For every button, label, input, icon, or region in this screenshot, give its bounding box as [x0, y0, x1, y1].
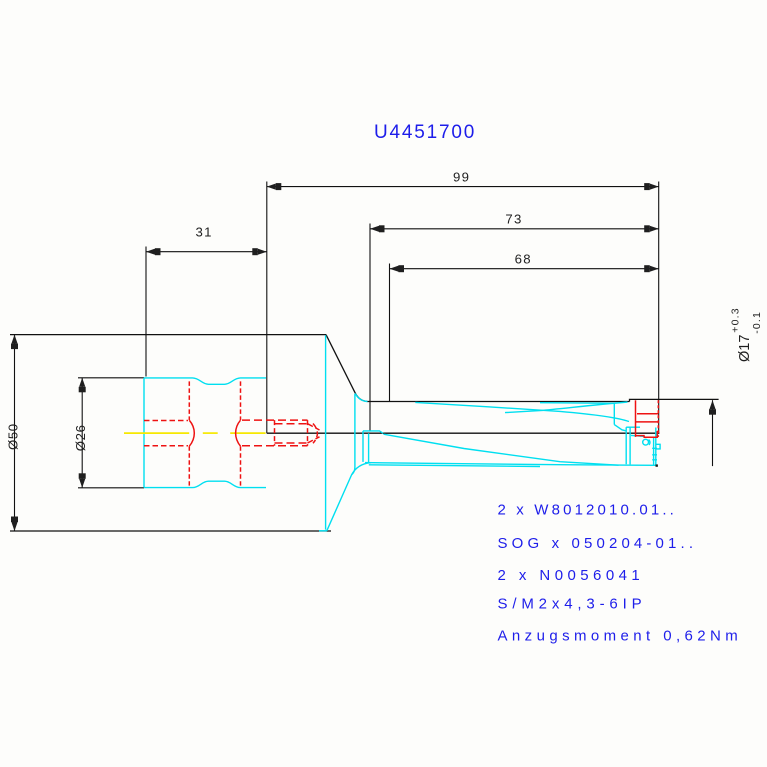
neck groove top ledge	[363, 431, 383, 433]
dim line 68	[390, 268, 659, 270]
body chamfer to drill	[326, 335, 368, 402]
D17 arrow (up)	[709, 400, 715, 409]
dimension texts	[5, 169, 531, 451]
arrowheads	[11, 183, 716, 531]
ext line x658.7	[658, 182, 660, 434]
ext line x370	[369, 224, 371, 432]
drill top edge	[368, 401, 630, 403]
ext line x267	[266, 182, 268, 434]
D50 arrows	[11, 335, 17, 344]
dim line D26	[81, 378, 83, 488]
screw inner top	[275, 423, 308, 425]
svg-text:U4451700: U4451700	[374, 122, 476, 143]
screw inner bottom	[275, 442, 308, 444]
axis line right part	[267, 432, 660, 434]
left bore bottom	[144, 445, 188, 447]
screw section vertical	[274, 420, 276, 446]
insert left edge	[635, 400, 637, 437]
red hidden details	[144, 381, 320, 485]
screw thread top	[242, 419, 308, 421]
tip side tab	[657, 444, 661, 449]
yellow centerline	[124, 432, 266, 434]
flute end vertical	[613, 403, 615, 424]
dimension graphics (black)	[15, 182, 713, 532]
screw tip vertical	[307, 420, 309, 446]
svg-text:2 x W8012010.01..: 2 x W8012010.01..	[498, 502, 677, 519]
svg-text:Ø50: Ø50	[5, 423, 20, 450]
insert top edge / dim17 extension	[630, 399, 719, 401]
body right face	[325, 335, 327, 529]
cross hole left arc	[189, 420, 194, 446]
ext line x146	[145, 247, 147, 377]
cross hole right arc	[236, 420, 241, 446]
lower flute diagonal	[384, 434, 619, 465]
cross hole left lower	[188, 446, 190, 485]
cross hole right upper	[240, 381, 242, 420]
insert bottom	[636, 431, 658, 437]
screw thread bottom	[242, 445, 308, 447]
D26 arrows	[79, 378, 85, 387]
tip end dot	[656, 464, 658, 466]
text D17 +0.3 -0.1 rotated	[730, 307, 763, 362]
flange top edge with groove dip	[144, 378, 266, 384]
dim line 73	[370, 228, 659, 230]
svg-text:+0.3: +0.3	[730, 307, 742, 333]
flange bottom edge with bump	[144, 481, 266, 487]
insert mid line 1	[637, 413, 658, 415]
upper flute line A	[415, 402, 629, 421]
tip right verticals	[653, 437, 655, 466]
body bottom corner	[319, 530, 327, 532]
dim line D17	[712, 400, 714, 466]
99 arrows	[267, 184, 276, 190]
insert mid line 2	[636, 421, 659, 423]
svg-text:31: 31	[196, 225, 213, 240]
dim line 31	[146, 251, 267, 253]
upper flute line B	[505, 402, 628, 413]
svg-text:-0.1: -0.1	[751, 311, 763, 334]
red insert at drill point	[636, 400, 659, 437]
svg-text:73: 73	[505, 211, 522, 226]
tip screw squiggle	[643, 439, 649, 445]
body bottom edge	[10, 530, 331, 532]
tip pocket ledge	[626, 426, 640, 428]
holder body outline (black)	[10, 335, 719, 531]
blue note texts	[498, 502, 743, 645]
tip ruler ticks	[652, 448, 657, 460]
svg-text:Ø17: Ø17	[737, 335, 753, 362]
31 arrows	[146, 249, 155, 255]
body top edge	[10, 334, 326, 336]
screw tip cone upper	[308, 424, 320, 430]
dim line 99	[267, 186, 659, 188]
cross hole left upper	[188, 381, 190, 420]
svg-text:68: 68	[515, 251, 532, 266]
svg-text:S/M2x4,3-6IP: S/M2x4,3-6IP	[498, 596, 647, 613]
upper cone fillet (cyan under black)	[355, 393, 367, 401]
cross hole right lower	[240, 446, 242, 485]
ext lines D26	[78, 377, 144, 379]
svg-text:Ø26: Ø26	[73, 424, 88, 451]
upper flute near top edge	[540, 402, 614, 405]
flange left edge	[143, 378, 145, 488]
drill bottom edge 1	[365, 463, 657, 466]
68 arrows	[390, 266, 399, 272]
insert right edge	[657, 400, 659, 437]
tip insert lower edge	[631, 435, 644, 436]
ext line x389.5	[389, 264, 391, 402]
svg-text:SOG x 050204-01..: SOG x 050204-01..	[498, 535, 698, 552]
lower cone edge	[327, 463, 371, 531]
svg-text:2 x N0056041: 2 x N0056041	[498, 567, 645, 584]
screw tip arc	[313, 424, 317, 444]
cyan tool contour	[144, 335, 660, 531]
drill bottom edge 2	[369, 465, 540, 467]
left bore top	[144, 420, 188, 422]
flute end connectors	[614, 425, 626, 431]
shank back face	[352, 394, 355, 474]
tip pocket verticals	[625, 427, 627, 464]
73 arrows	[370, 226, 379, 232]
neck groove verticals	[362, 431, 364, 462]
dim line D50	[14, 335, 16, 531]
svg-text:99: 99	[453, 169, 470, 184]
svg-text:Anzugsmoment 0,62Nm: Anzugsmoment 0,62Nm	[498, 628, 743, 645]
screw tip cone lower	[308, 437, 320, 443]
